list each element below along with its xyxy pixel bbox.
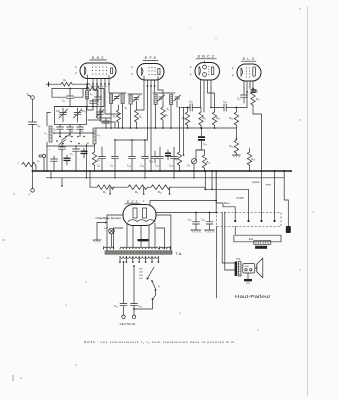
resistor R17 <box>251 92 255 105</box>
coil T2 primary <box>154 95 157 105</box>
wire <box>103 93 105 107</box>
svg-text:T.S: T.S <box>236 257 240 261</box>
resistor R4 <box>97 185 114 190</box>
coil L1 <box>86 89 88 91</box>
pin 3 <box>261 214 263 222</box>
svg-text:C20: C20 <box>114 305 118 309</box>
wire HT rail <box>156 212 217 214</box>
svg-text:C23: C23 <box>202 219 206 223</box>
svg-text:L.P: L.P <box>104 226 108 230</box>
wire <box>47 145 95 147</box>
wire EL3 grid <box>243 88 245 95</box>
svg-text:R6: R6 <box>139 116 142 120</box>
svg-text:vert: vert <box>266 183 271 187</box>
wire <box>97 84 111 118</box>
ground <box>232 155 240 157</box>
wire secondary bus <box>46 177 284 179</box>
wire riser rouge <box>224 212 226 270</box>
junction <box>110 127 215 129</box>
ground <box>205 229 215 231</box>
capacitor C20 <box>120 303 127 305</box>
wire stub <box>143 187 145 194</box>
anode plate 1 <box>133 208 137 218</box>
page edge line <box>307 6 309 396</box>
wire <box>176 101 178 108</box>
resistor R1 <box>61 82 72 86</box>
capacitor C6 <box>92 99 94 101</box>
wire <box>99 89 104 94</box>
svg-text:R5: R5 <box>113 116 116 120</box>
junction dots <box>43 88 95 172</box>
loop box <box>52 89 66 98</box>
wire <box>32 124 34 171</box>
wire <box>196 149 205 151</box>
cable loop <box>234 227 281 242</box>
wire detector grid <box>183 108 185 156</box>
wire <box>69 89 71 97</box>
anode plate <box>212 67 214 75</box>
anode plate <box>253 67 256 77</box>
earth terminal <box>31 189 35 193</box>
grid dots <box>246 67 250 77</box>
input bar <box>48 82 50 87</box>
speaker cone <box>257 258 263 278</box>
trimmer capacitor <box>175 96 180 98</box>
wire bleu feeder <box>216 171 235 214</box>
capacitor C1 <box>29 121 37 123</box>
capacitor C2 <box>59 125 61 128</box>
wire <box>155 105 157 129</box>
primary winding loops lower <box>120 256 158 258</box>
wire <box>154 86 156 93</box>
capacitor C21 <box>131 303 138 305</box>
cathode <box>85 67 87 76</box>
capacitor C8 <box>101 147 103 157</box>
svg-text:R17: R17 <box>256 98 260 102</box>
wire avc start <box>89 171 91 187</box>
svg-text:R14: R14 <box>207 161 211 165</box>
pin wires <box>143 76 145 86</box>
secondary winding loops upper <box>104 247 114 249</box>
primary taps <box>119 256 121 262</box>
chassis ground <box>244 279 252 281</box>
resistor R18 <box>247 152 251 165</box>
resistor R15 <box>177 152 181 165</box>
capacitor C14 <box>144 140 146 157</box>
junction dots on buses <box>101 139 175 172</box>
wire main ground bus <box>33 170 292 172</box>
variable capacitor CV1 <box>62 108 64 113</box>
mains plug hatched <box>286 226 291 233</box>
field coil winding <box>254 241 271 245</box>
svg-text:L2: L2 <box>45 132 47 136</box>
junction <box>150 170 152 172</box>
pin 2 <box>248 214 250 222</box>
capacitor C29 <box>83 148 85 151</box>
svg-text:C27: C27 <box>237 98 241 102</box>
wire <box>130 104 132 128</box>
wire <box>87 84 89 89</box>
svg-text:P2: P2 <box>188 165 191 169</box>
cathode <box>199 67 201 76</box>
capacitor C9 <box>114 140 116 157</box>
terminal Pu <box>39 155 41 157</box>
wire <box>145 86 148 140</box>
capacitor C15 <box>159 147 161 157</box>
resistor R14 <box>202 155 206 168</box>
inner box left <box>113 228 115 249</box>
svg-text:bleu: bleu <box>224 201 230 205</box>
capacitor C30 <box>66 155 68 158</box>
svg-text:C21: C21 <box>139 305 143 309</box>
wire arrow <box>97 222 106 224</box>
wire <box>150 86 152 171</box>
pin wires <box>126 223 128 247</box>
wire T.S top leads <box>222 262 234 264</box>
wire <box>255 267 257 269</box>
tube envelope U4 E.L.3 <box>237 64 261 81</box>
coupling capacitor C26 <box>218 107 224 109</box>
resistor R10 <box>185 112 189 125</box>
wire node B vertical <box>211 171 213 189</box>
coil T2 secondary <box>170 95 173 105</box>
coil L4 <box>129 95 132 104</box>
wire AVC line <box>90 186 97 188</box>
wire stub <box>61 178 63 186</box>
svg-text:rouge: rouge <box>237 196 245 200</box>
capacitor C23 <box>209 213 211 222</box>
svg-text:L3: L3 <box>98 134 100 138</box>
antenna terminal <box>31 96 35 100</box>
center tap blob <box>138 239 149 241</box>
field coil core <box>255 246 267 249</box>
svg-text:E.K.2: E.K.2 <box>92 56 104 60</box>
wire <box>52 88 86 90</box>
wire <box>49 83 62 85</box>
capacitor C4 <box>67 95 74 97</box>
tube envelope U1 E.K.2 <box>80 63 116 79</box>
transformer core bar <box>105 251 172 254</box>
resistor R9 <box>128 185 147 190</box>
svg-text:R20: R20 <box>230 145 234 149</box>
anode plate <box>158 69 160 75</box>
svg-text:E.L.3: E.L.3 <box>243 57 255 61</box>
svg-text:C26: C26 <box>223 101 227 105</box>
capacitor C10 <box>97 95 99 97</box>
pickup terminal <box>42 154 45 157</box>
wire <box>170 105 172 129</box>
svg-text:E.B.C.3: E.B.C.3 <box>198 55 215 59</box>
wire screen to rail <box>236 107 247 109</box>
wire grid lead <box>93 84 98 95</box>
wire stub <box>169 187 171 194</box>
capacitor C19 <box>154 151 156 157</box>
capacitor C24 <box>167 150 169 153</box>
pin 4 <box>274 214 276 222</box>
svg-text:C18: C18 <box>189 101 193 105</box>
capacitor C3 <box>69 125 71 128</box>
capacitor C12 <box>105 118 107 121</box>
svg-text:CV1: CV1 <box>56 110 60 114</box>
resistor R12 <box>151 185 170 190</box>
wire <box>114 227 124 229</box>
wire to node <box>170 186 205 188</box>
wire right edge drop <box>284 171 288 226</box>
svg-text:Exc: Exc <box>249 237 254 241</box>
svg-text:R19: R19 <box>230 117 234 121</box>
diode plates <box>203 65 207 69</box>
heater box left <box>107 215 123 251</box>
svg-text:T: T <box>27 93 29 97</box>
svg-text:T: T <box>29 193 31 197</box>
coil L3 <box>93 128 96 144</box>
wire riser bleu <box>221 212 223 263</box>
tuning gang box <box>55 107 87 125</box>
trimmer capacitor C11 <box>99 109 101 112</box>
connector dashed box <box>217 213 282 227</box>
capacitor C27 <box>241 94 248 96</box>
capacitor C7c <box>53 156 55 159</box>
grid dots <box>208 66 209 75</box>
svg-text:E.Z.2: E.Z.2 <box>127 200 138 204</box>
mains terminal 2 <box>132 315 135 318</box>
wire c lead <box>215 171 217 213</box>
wire <box>123 262 125 304</box>
capacitor C5 <box>79 125 81 128</box>
coil T1 primary <box>110 94 113 104</box>
wire <box>153 92 175 94</box>
resistor R19 <box>234 112 238 125</box>
svg-text:B.M: B.M <box>245 266 249 268</box>
switch I2 <box>152 281 156 289</box>
coil L2 <box>49 126 52 142</box>
capacitor C7b <box>75 146 77 149</box>
pin wires <box>200 80 202 88</box>
variable capacitor CV2 <box>77 108 79 113</box>
wire <box>122 104 124 129</box>
bus end junction <box>290 170 292 172</box>
svg-text:C2: C2 <box>53 129 56 133</box>
svg-text:R7: R7 <box>165 114 168 118</box>
wire grid <box>200 88 202 108</box>
svg-text:SECTEUR: SECTEUR <box>120 322 136 326</box>
wire grid riser <box>235 108 237 113</box>
svg-text:C3: C3 <box>71 130 74 134</box>
wire connector left drop <box>216 227 218 299</box>
pin wires <box>243 81 245 88</box>
trimmer capacitor <box>159 96 164 98</box>
cathode <box>142 68 144 76</box>
capacitor C16 <box>173 147 175 157</box>
wire <box>203 88 205 112</box>
resistor R7 <box>161 107 165 120</box>
wire plate riser to bus <box>253 110 262 171</box>
voice coil box <box>243 264 255 274</box>
wire <box>55 106 105 108</box>
svg-text:C17: C17 <box>204 143 208 147</box>
wire <box>136 101 138 110</box>
electrolytic C17 <box>198 136 205 138</box>
wire <box>115 139 145 141</box>
mains terminal 1 <box>122 315 125 318</box>
wire node A vertical <box>204 171 206 189</box>
svg-text:M: M <box>87 143 89 145</box>
pin 1 <box>234 214 236 222</box>
wire <box>247 273 249 279</box>
svg-text:R3: R3 <box>97 159 100 163</box>
grid dots <box>92 66 107 74</box>
anode plate <box>111 68 113 74</box>
capacitor C13 <box>131 140 133 157</box>
output transformer T.S primary <box>235 262 238 277</box>
trimmer capacitor <box>134 97 139 99</box>
resistor R20 <box>234 140 238 153</box>
wire <box>54 132 94 134</box>
svg-text:T.A.: T.A. <box>176 251 183 256</box>
wire <box>96 223 98 241</box>
junction <box>32 170 34 172</box>
ground <box>93 239 101 241</box>
wire plate lead <box>108 84 110 93</box>
svg-text:Chauffage lampes: Chauffage lampes <box>96 216 122 220</box>
svg-text:E.F.9: E.F.9 <box>145 56 157 60</box>
tube envelope U3 E.B.C.3 <box>195 63 220 81</box>
inner box right <box>164 228 166 249</box>
switch I1 contacts <box>59 136 85 138</box>
wire <box>32 171 34 189</box>
svg-text:R13: R13 <box>217 117 221 121</box>
resistor R5 <box>117 110 121 122</box>
wire vert feeder <box>274 171 276 214</box>
filament <box>128 220 155 222</box>
wire <box>128 93 142 95</box>
svg-text:C7: C7 <box>70 153 73 157</box>
svg-text:CV2: CV2 <box>82 110 86 114</box>
wire <box>87 107 93 111</box>
anode plate 2 <box>143 208 147 218</box>
svg-text:jaune: jaune <box>252 180 260 184</box>
wire <box>137 86 145 110</box>
stub wires to second bus <box>50 171 52 178</box>
wire stub <box>109 187 111 194</box>
output transformer T.S secondary <box>238 262 241 277</box>
wire screen rail <box>96 127 236 129</box>
wire <box>111 234 113 247</box>
capacitor C22 <box>195 213 197 222</box>
capacitor C7a <box>61 144 63 147</box>
resistor R6 <box>135 110 139 122</box>
svg-text:C22: C22 <box>188 219 192 223</box>
wire <box>196 146 202 159</box>
wire <box>32 99 34 121</box>
resistor R2 <box>86 86 99 90</box>
switch I1b contacts <box>56 140 80 144</box>
tube envelope U5 E.Z.2 <box>123 205 156 226</box>
svg-text:NOTA : Les commutateurs I1 I2: NOTA : Les commutateurs I1 I2 sont repré… <box>84 340 236 345</box>
svg-text:C20: C20 <box>150 160 154 164</box>
trimmer capacitor <box>115 96 120 98</box>
coupling capacitor C18 <box>181 107 190 109</box>
wire <box>101 84 115 128</box>
capacitor C28 <box>251 89 257 90</box>
wire rouge feeder <box>205 187 248 213</box>
wire <box>105 84 120 114</box>
wire plate <box>211 88 218 108</box>
wire <box>147 186 151 188</box>
potentiometer P2 <box>191 159 196 164</box>
resistor R3 <box>92 152 96 165</box>
wire <box>158 86 163 97</box>
tube envelope U2 E.F.9 <box>137 64 164 81</box>
selector arm <box>148 267 155 279</box>
svg-text:R18: R18 <box>252 158 256 162</box>
wire <box>133 266 135 304</box>
wire screen <box>249 87 251 90</box>
wire <box>110 104 112 129</box>
grid dots <box>148 67 155 75</box>
wire <box>208 88 215 112</box>
cathode <box>241 68 243 76</box>
svg-text:Haut-Parleur: Haut-Parleur <box>235 294 271 299</box>
wire verticals to bus <box>46 142 48 171</box>
pin wires <box>87 75 89 84</box>
wire jaune feeder <box>261 171 263 214</box>
resistor R11 <box>199 112 203 125</box>
wire <box>112 186 128 188</box>
wire cathode <box>246 88 248 108</box>
ground <box>191 229 201 231</box>
switch I3 <box>155 290 157 295</box>
svg-text:C5: C5 <box>81 130 84 134</box>
wire <box>88 119 100 121</box>
heater box right <box>156 215 171 251</box>
potentiometer P1 <box>22 162 36 166</box>
wire <box>109 92 126 94</box>
svg-text:R11: R11 <box>203 117 207 121</box>
coil T1 secondary <box>121 94 124 104</box>
wire <box>72 84 87 88</box>
svg-text:R15: R15 <box>174 158 178 162</box>
resistor R13 <box>212 112 216 125</box>
